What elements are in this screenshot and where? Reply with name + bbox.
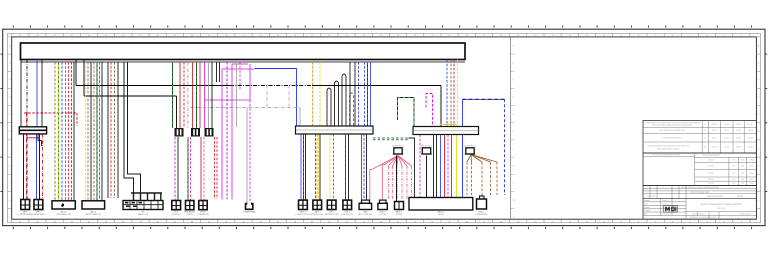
inner drawing frame	[12, 37, 757, 219]
svg-text:XXXX XXXXXXXXX XXXXXX: XXXX XXXXXXXXX XXXXXX	[657, 149, 680, 151]
wire G1-2	[26, 60, 28, 200]
wire P1 black dash overlay	[463, 98, 505, 100]
wire magenta long 2	[231, 64, 233, 200]
zone numbers bottom band	[19, 221, 743, 223]
wire J4-out-8	[419, 135, 421, 198]
svg-text:XXXXXX: XXXXXX	[708, 173, 715, 175]
wire H1 horizontal bus	[76, 85, 230, 87]
wire red dashed horizontal left	[24, 112, 77, 114]
svg-text:(CTEKLOOCH.OK): (CTEKLOOCH.OK)	[295, 214, 312, 216]
wire G3-7	[199, 62, 201, 128]
wire P1 right blue dashed vertical	[504, 99, 506, 195]
svg-text:XXXXXX: XXXXXX	[737, 196, 744, 198]
svg-text:XXXXXXX-X: XXXXXXX-X	[392, 145, 404, 147]
connector C14	[359, 200, 372, 209]
svg-text:(CBOP.MAC.OK): (CBOP.MAC.OK)	[56, 213, 71, 216]
wire comb feeder 2	[128, 62, 141, 193]
label BK5.1	[396, 212, 403, 217]
fold divider zone numbers	[513, 45, 516, 219]
outer border	[3, 29, 765, 225]
pink branch to C14	[370, 156, 398, 203]
zone band top dividers	[12, 33, 750, 37]
zone band frame	[8, 33, 761, 222]
green-black gate symbol	[398, 98, 415, 127]
svg-text:XXXXXX XXXXX XXXXXXX XXXXXX XX: XXXXXX XXXXX XXXXXXX XXXXXX XXXX XXXXX	[652, 125, 692, 127]
wire magenta drop to C9	[249, 100, 251, 203]
svg-text:BPK AK.OK: BPK AK.OK	[184, 211, 196, 214]
bar bottom parallel wire	[21, 61, 466, 63]
svg-text:(XX.X): (XX.X)	[438, 214, 444, 216]
svg-text:XXXXXXX XXXXXXXXXXXX XXXXX: XXXXXXX XXXXXXXXXXXX XXXXX	[652, 155, 681, 157]
svg-text:XXXXX: XXXXX	[712, 124, 718, 126]
connector C7	[186, 201, 194, 210]
title block revision texts	[643, 123, 754, 219]
wire black L to module box	[409, 138, 415, 198]
wire J4-out-6	[451, 135, 453, 198]
wire blue horizontal top	[255, 68, 297, 70]
svg-text:(CBETOV.OK): (CBETOV.OK)	[341, 214, 353, 216]
connector C12	[327, 200, 336, 209]
wire G3-3	[183, 62, 185, 128]
connector T2	[421, 148, 431, 154]
wire T1 black drop to C16	[396, 156, 398, 202]
svg-text:(BCTEKLO.OK): (BCTEKLO.OK)	[325, 214, 339, 216]
wire G4t-4	[354, 62, 356, 126]
svg-text:XXXXXXXXXXXXXX: XXXXXXXXXXXXXX	[707, 196, 724, 198]
svg-text:XXXXX: XXXXX	[712, 147, 718, 149]
svg-text:Xxxxxxxx: Xxxxxxxx	[662, 200, 669, 202]
svg-text:XXX XXXXXXX XXXXX: XXX XXXXXXX XXXXX	[663, 138, 682, 140]
svg-text:Xxx.: Xxx.	[644, 214, 648, 216]
svg-text:K.AHTEHHA: K.AHTEHHA	[243, 211, 256, 214]
sheet fold divider line x=510	[510, 37, 512, 219]
svg-text:Xxxxxxxx: Xxxxxxxx	[662, 203, 669, 205]
label TK1.5	[341, 212, 353, 217]
wire G1-10	[71, 62, 73, 201]
wire J4-out-1	[433, 135, 435, 198]
wire G4t-6	[364, 62, 366, 126]
wire G1-9	[68, 62, 70, 201]
wire J4-out-2	[436, 135, 438, 198]
wire P1 left blue vertical	[462, 99, 464, 197]
junction bar J2c	[205, 128, 214, 137]
label BK1.5	[295, 212, 312, 217]
ruler tick marks top	[13, 25, 751, 27]
wire grey stub near magenta	[236, 64, 238, 127]
wire magenta upper segment	[249, 64, 251, 100]
wire G4t-1	[312, 62, 314, 126]
svg-text:XXXXXX: XXXXXX	[708, 183, 715, 185]
wire G4b-4	[315, 134, 317, 200]
label BK5.2	[476, 212, 488, 217]
svg-text:XXXXX: XXXXX	[712, 130, 718, 132]
wire magenta riser long 1	[221, 69, 223, 200]
connector C2	[34, 200, 43, 210]
svg-text:XXXXX: XXXXX	[748, 124, 754, 126]
wire C1 pin red dashdot	[26, 113, 28, 200]
zone band right dividers	[756, 37, 760, 209]
svg-text:Xxxx.: Xxxx.	[644, 203, 649, 205]
svg-text:(COEDIN.OK): (COEDIN.OK)	[197, 214, 209, 216]
wire C2 pin black	[39, 134, 41, 200]
connector C15	[378, 200, 387, 209]
svg-text:XXXXX: XXXXX	[748, 147, 754, 149]
wire H2 horizontal	[84, 95, 177, 97]
zone band left dividers	[8, 37, 12, 209]
wire G2-2	[87, 62, 89, 201]
zone letters right band	[758, 44, 760, 219]
wire G2-3	[90, 62, 92, 201]
wire G4t-7	[367, 62, 369, 126]
connector C3	[52, 201, 75, 209]
svg-text:XXX.XXX: XXX.XXX	[717, 208, 725, 210]
svg-text:XXXXX: XXXXX	[748, 138, 754, 140]
relay loop green	[350, 93, 354, 126]
wire H2 riser left	[83, 60, 85, 97]
wire green horizontal base black	[373, 139, 409, 141]
svg-text:(OK.OK): (OK.OK)	[379, 214, 387, 216]
svg-text:(COEDIN.): (COEDIN.)	[172, 214, 182, 216]
wire G1-7	[61, 62, 63, 201]
label BK7	[325, 212, 339, 217]
svg-text:Xxxxxxxx: Xxxxxxxx	[662, 214, 669, 216]
svg-text:(MACC.OK): (MACC.OK)	[138, 213, 148, 216]
wire G4b-14	[366, 134, 368, 203]
label BK1.1	[438, 212, 445, 217]
label XK	[138, 212, 148, 217]
wire green dashed horizontal right	[373, 137, 409, 139]
junction bar J2a	[175, 128, 184, 137]
connector T1 pink fan lines	[389, 156, 412, 200]
connector T1	[393, 148, 403, 154]
wire J4-out-3	[440, 135, 442, 198]
label BPK AK.OK	[184, 211, 196, 217]
wire G4b-10	[345, 134, 347, 200]
wire G4b-13	[363, 134, 365, 203]
wire magenta stub top	[232, 63, 248, 65]
main harness connector bar X1	[21, 43, 466, 60]
svg-text:XXX XXXX: XXX XXXX	[648, 196, 657, 198]
label BK1.9	[56, 212, 71, 217]
wire violet dashed long	[226, 62, 228, 200]
connector C10	[299, 200, 308, 209]
connector C18	[477, 196, 487, 209]
wire H2 drop to junction J2a	[176, 96, 178, 128]
wire G4b-7	[319, 134, 321, 200]
wire G3b-6	[203, 137, 205, 201]
wire magenta mid riser	[204, 62, 206, 128]
connector C9 spade	[246, 203, 253, 210]
wire G2-1	[84, 62, 86, 201]
busbar J4	[413, 127, 479, 135]
magenta loop component	[426, 94, 433, 127]
wire G3b-4	[190, 137, 192, 201]
junction splice bar J1	[19, 127, 46, 134]
ruler tick marks bottom	[13, 227, 751, 229]
wire G4b-8	[329, 134, 331, 200]
svg-text:XXXXX: XXXXX	[748, 130, 754, 132]
label T3	[464, 145, 476, 147]
wire G2-5	[96, 62, 98, 201]
wire G4b-2	[303, 134, 305, 200]
label BK1.2	[86, 212, 102, 217]
wire G3b-7	[214, 137, 216, 199]
wire G2-10	[114, 62, 116, 198]
label T2	[421, 145, 433, 147]
wire G3b-2	[177, 137, 179, 201]
label BK4	[31, 212, 46, 217]
svg-text:(COEDIN.XX): (COEDIN.XX)	[476, 214, 488, 216]
wire G4b-12	[361, 134, 363, 203]
wire G3-5	[192, 62, 194, 128]
wire G1-11	[73, 62, 75, 201]
wire G4b-9	[333, 134, 335, 200]
wire black jog under J1	[38, 134, 42, 146]
wire G4t-5	[358, 62, 360, 126]
wire G4b-11	[348, 134, 350, 200]
connector C6	[172, 201, 181, 210]
wire grey dash-dot horizontal	[190, 107, 300, 109]
wire C2 pin blue	[36, 134, 38, 200]
title block	[643, 121, 756, 220]
svg-text:XXXXXXX-X: XXXXXXX-X	[464, 145, 476, 147]
connector C16	[395, 202, 404, 210]
junction bar J2b	[191, 128, 200, 137]
wire G3-2	[179, 62, 181, 128]
wire magenta horizontal mid	[205, 99, 251, 101]
svg-text:J: J	[9, 148, 10, 150]
wire G4t-2	[319, 62, 321, 126]
label TK2	[172, 212, 182, 217]
wire H1 riser right to busbar J4	[440, 86, 442, 127]
label XB3.7	[379, 212, 387, 217]
module box C17	[409, 198, 473, 211]
wire P1 blue-black horizontal	[463, 98, 505, 100]
title block outer boxes	[643, 121, 756, 220]
wire G4b-6	[318, 134, 320, 200]
svg-text:Xxxxxx.: Xxxxxx.	[644, 200, 650, 202]
wire H1 right segment	[312, 85, 441, 87]
connector C8	[199, 201, 207, 210]
wire G3b-5	[200, 137, 202, 201]
wire G3b-8	[216, 137, 218, 199]
wire C2 pin red	[42, 134, 44, 200]
wire grey drop to busbar J3	[299, 108, 301, 127]
label BK2	[311, 212, 323, 217]
svg-text:XXXXXXX-X: XXXXXXX-X	[421, 145, 433, 147]
svg-text:XXXXXX: XXXXXX	[708, 179, 715, 181]
wire grey long to C9	[246, 108, 248, 204]
wire G1-5	[54, 62, 56, 201]
svg-text:XXXXXXXX XXXXXXXXXXX XXXXX: XXXXXXXX XXXXXXXXXXX XXXXX	[690, 217, 717, 219]
connector C13	[343, 200, 352, 209]
wire G5-2	[450, 60, 452, 127]
connector C1	[21, 200, 30, 210]
ruler tick marks right	[765, 54, 767, 191]
wire G3-1	[172, 62, 174, 128]
label BK3	[18, 212, 33, 217]
wire T2 black drop	[426, 156, 428, 198]
wire comb feeder 1	[124, 62, 134, 193]
svg-text:XXXXX XXXXXXX: XXXXX XXXXXXX	[692, 214, 706, 216]
wire G2-9	[110, 62, 112, 198]
relay loop symbols	[327, 74, 346, 126]
terminal strip C5	[123, 201, 163, 210]
label T1	[392, 145, 404, 147]
wire G3-10	[216, 62, 218, 82]
svg-text:X.xxxxx.: X.xxxxx.	[644, 210, 651, 212]
wire G3-4	[187, 62, 189, 128]
wire G4b-3	[305, 134, 307, 200]
wire G2-7	[101, 62, 103, 201]
wire yellow bend onto busbar J4	[440, 124, 457, 126]
connector T3	[465, 148, 475, 154]
zone numbers top band	[19, 35, 743, 37]
svg-text:J: J	[758, 148, 759, 150]
svg-text:XXXXX: XXXXX	[736, 147, 742, 149]
wire G2-11	[117, 62, 119, 198]
wire G4t-3	[349, 62, 351, 126]
svg-text:(MODUL AMP.OK): (MODUL AMP.OK)	[86, 213, 102, 216]
wire G2-4	[93, 62, 95, 201]
wire blue drop to busbar J3	[296, 69, 298, 126]
svg-text:XXXX XXXXXXXXXXX: XXXX XXXXXXXXXXX	[702, 155, 720, 157]
wire G5-3	[453, 60, 455, 127]
wire G2-6	[99, 62, 101, 201]
wire G3-8	[208, 62, 210, 128]
wire G1-8	[65, 62, 67, 201]
label BTK1	[197, 212, 209, 217]
svg-text:XXXXX: XXXXX	[187, 214, 194, 216]
svg-text:XXXXX XXXXXXX XXXXXXXXX XXXXXX: XXXXX XXXXXXX XXXXXXXXX XXXXXXX XXXX XXX	[647, 146, 690, 148]
wire G4b-1	[300, 134, 302, 200]
wire grey link 1	[266, 86, 268, 108]
wire magenta short top	[239, 62, 241, 90]
wire H1 riser left	[75, 60, 77, 86]
wire J4-out-7	[456, 135, 458, 198]
comb above C5	[131, 193, 162, 201]
wire G1-6	[58, 62, 60, 201]
wire G1-4	[41, 60, 43, 127]
connector C4	[82, 201, 105, 209]
svg-text:(C NEPEDHUM..): (C NEPEDHUM..)	[31, 214, 46, 216]
fold divider zone ticks	[511, 54, 515, 209]
wire G2-8	[107, 62, 109, 198]
zone letters left band	[9, 44, 11, 219]
wire G5-1	[446, 60, 448, 127]
wire grey link 2	[288, 86, 290, 108]
svg-text:XXXXXX: XXXXXX	[708, 166, 715, 168]
svg-text:(BKL.COMP.OK): (BKL.COMP.OK)	[358, 214, 372, 216]
pink branch to C15	[382, 156, 398, 203]
label XB5	[358, 212, 372, 217]
connector T3 brown fan lines	[467, 155, 497, 200]
svg-text:XXXXX: XXXXX	[736, 124, 742, 126]
wire J4-out-4	[444, 135, 446, 198]
wire G3-6	[196, 62, 198, 128]
svg-text:(XXXX): (XXXX)	[396, 214, 403, 216]
wire G4t-8	[370, 62, 372, 126]
label K.AHTEHHA	[243, 211, 256, 214]
svg-text:XXXXXX XXXXXX XXXX: XXXXXX XXXXXX XXXX	[691, 192, 710, 194]
wire C1 pin black	[23, 134, 25, 200]
svg-text:XXXXX: XXXXX	[712, 138, 718, 140]
svg-text:XXXXX: XXXXX	[736, 138, 742, 140]
svg-text:(CBETOV.OK): (CBETOV.OK)	[311, 214, 323, 216]
wire J4-out-5	[447, 135, 449, 198]
wire red dashed right drop	[76, 113, 78, 126]
wire red jog under J1	[27, 134, 40, 138]
wire G1-1	[20, 60, 22, 127]
wire G3b-1	[174, 137, 176, 201]
svg-text:XXXXX: XXXXX	[736, 130, 742, 132]
svg-text:XXXX XXXXXXX XXXXXXX XXXX: XXXX XXXXXXX XXXXXXX XXXX	[659, 130, 686, 132]
wire G3-11	[219, 62, 221, 82]
wire G3b-3	[187, 137, 189, 201]
wire G5-4	[457, 60, 459, 127]
svg-text:X XXX XX.X.XX: X XXX XX.X.XX	[739, 214, 751, 216]
svg-text:X.xxxxx.: X.xxxxx.	[644, 207, 651, 209]
connector C11	[313, 200, 322, 209]
wire G3-9	[211, 62, 213, 128]
svg-text:XXXXXX XXXXXXXXX XXXX XXXXXXX: XXXXXX XXXXXXXXX XXXX XXXXXXX XXXXXXXX	[681, 187, 720, 189]
ruler tick marks left	[0, 54, 2, 191]
svg-text:XXXXXX: XXXXXX	[708, 160, 715, 162]
wire G4b-5	[316, 134, 318, 200]
logo MG	[664, 206, 678, 213]
svg-text:XXXXX XXXXXXXXXXXX - XXXXXX XX: XXXXX XXXXXXXXXXXX - XXXXXX XXXXXXX	[701, 204, 742, 206]
zone band bottom dividers	[12, 219, 750, 223]
wire H1 mid dash-dot	[230, 85, 312, 87]
busbar J3	[296, 126, 374, 134]
wire magenta horizontal top	[222, 68, 255, 70]
wire G1-3	[36, 60, 38, 127]
